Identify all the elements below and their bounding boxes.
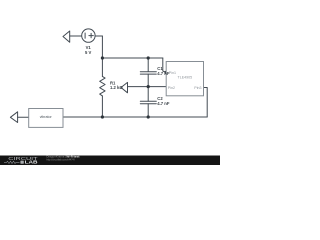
svg-text:Pin3: Pin3 <box>194 86 201 90</box>
capacitor C1 plates <box>140 71 156 73</box>
mid wire to pin2 <box>128 86 167 88</box>
wire C1 to C2 <box>147 74 149 101</box>
node flag OUT (left of V1) <box>63 31 70 42</box>
labels <box>85 45 170 106</box>
wire flag to V1 <box>70 35 82 37</box>
junction C1/C2 mid wire <box>147 85 150 88</box>
CircuitLab logo squiggle <box>4 161 20 163</box>
svg-text:LAB: LAB <box>25 160 39 165</box>
IC U1 TLE4905 box <box>166 62 203 96</box>
wire flag to vibrator box <box>18 116 29 118</box>
junction C2 bottom rail <box>147 115 150 118</box>
svg-text:http://circuitlab.com/c4474f: http://circuitlab.com/c4474f <box>46 158 74 162</box>
node flag bottom-left <box>10 112 17 123</box>
svg-text:4.7 nF: 4.7 nF <box>157 101 170 106</box>
wire drop to pin1 <box>163 58 166 73</box>
junction C1 top lead <box>147 56 150 59</box>
footer black bar <box>0 156 220 166</box>
wire R1 to bottom rail <box>101 96 103 117</box>
V1 minus bar <box>84 33 86 38</box>
resistor R1 zigzag <box>100 76 105 96</box>
wire vertical down from V1 to top rail junction <box>101 36 103 58</box>
node flag mid <box>121 82 128 92</box>
svg-text:Pin2: Pin2 <box>168 86 175 90</box>
pin3 wire <box>204 88 208 118</box>
svg-text:Pin1: Pin1 <box>169 71 176 75</box>
wire vertical down to R1 <box>101 58 103 76</box>
capacitor C1 top lead <box>147 58 149 72</box>
pin 1 terminal dot <box>165 71 169 75</box>
svg-text:vibrator: vibrator <box>40 115 53 119</box>
top wire y58 <box>102 57 162 59</box>
CircuitLab logo bolt box <box>20 161 23 164</box>
voltage source V1 circle <box>82 29 95 42</box>
svg-text:1.2 kΩ: 1.2 kΩ <box>110 85 123 90</box>
junction V1/R1/top wire <box>101 56 104 59</box>
junction R1 bottom rail <box>101 115 104 118</box>
capacitor C2 plates <box>140 100 156 102</box>
svg-text:TLE4905: TLE4905 <box>178 76 193 80</box>
wire C2 to bottom rail <box>147 104 149 117</box>
bottom rail <box>63 116 207 118</box>
svg-text:5 V: 5 V <box>85 50 91 55</box>
wire V1 to corner <box>95 35 102 37</box>
V1 plus sign <box>89 35 93 37</box>
vibrator box <box>29 109 63 128</box>
